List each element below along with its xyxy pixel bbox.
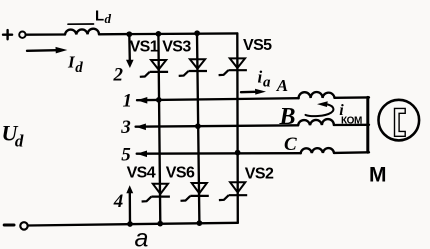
svg-text:1: 1 (123, 91, 133, 112)
svg-text:B: B (279, 104, 296, 130)
svg-text:2: 2 (113, 65, 124, 86)
svg-text:L: L (95, 8, 104, 25)
svg-text:VS5: VS5 (243, 37, 272, 54)
svg-text:4: 4 (113, 191, 124, 212)
svg-text:3: 3 (120, 117, 131, 138)
svg-text:d: d (15, 132, 24, 151)
svg-text:M: M (369, 163, 387, 186)
svg-text:d: d (75, 60, 83, 76)
svg-text:VS6: VS6 (166, 164, 195, 181)
svg-text:VS3: VS3 (162, 38, 191, 55)
svg-text:i: i (258, 68, 263, 87)
svg-text:a: a (135, 224, 149, 249)
svg-text:КОМ: КОМ (341, 115, 362, 126)
svg-text:VS4: VS4 (127, 165, 156, 182)
svg-text:VS1: VS1 (130, 39, 159, 56)
svg-text:5: 5 (121, 145, 131, 166)
svg-text:A: A (276, 76, 288, 95)
svg-text:a: a (263, 74, 271, 90)
svg-text:C: C (284, 134, 297, 155)
svg-text:VS2: VS2 (245, 166, 274, 183)
svg-text:d: d (105, 11, 112, 26)
